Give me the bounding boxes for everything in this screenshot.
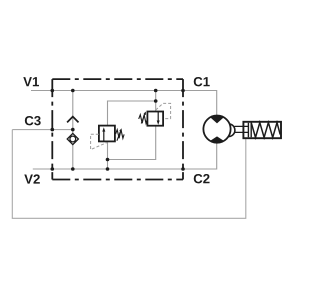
junction relief valve 1 top link xyxy=(154,99,158,103)
port label V2 xyxy=(24,174,40,183)
brake cylinder body xyxy=(243,122,281,138)
junction V1 line x check valve branch xyxy=(71,89,75,93)
brake piston rod xyxy=(235,126,249,132)
hydraulic motor circle xyxy=(203,116,230,143)
node C3 port at boundary xyxy=(51,128,55,132)
port label C3 xyxy=(25,116,41,125)
node V1 port at boundary xyxy=(51,89,55,93)
wire V2 to C2 to motor bottom xyxy=(33,142,217,169)
motor shaft circle xyxy=(222,124,235,137)
relief valve 2 spring xyxy=(139,115,148,124)
relief valve 2 adjust arrow xyxy=(141,112,145,123)
wire check valve branch xyxy=(72,91,74,170)
brake spring xyxy=(251,123,280,138)
check valve diamond xyxy=(67,133,78,144)
motor top triangle xyxy=(210,116,223,124)
brake piston xyxy=(248,123,251,138)
wire V1 to C1 to motor top xyxy=(31,91,217,117)
junction V2 line x check valve branch xyxy=(71,167,75,171)
relief valve 2 body xyxy=(147,112,163,126)
port label C1 xyxy=(194,77,210,86)
relief valve 2 pilot line xyxy=(156,103,171,118)
port label C2 xyxy=(194,174,210,183)
node C2 port at boundary xyxy=(181,167,185,171)
junction relief valve bottom link xyxy=(106,158,110,162)
wire C3 loop to brake cylinder xyxy=(12,130,246,219)
wire relief valve 1 top link xyxy=(108,101,156,126)
check valve ball xyxy=(70,136,76,142)
junction V2 line x relief valve 1 branch xyxy=(106,167,110,171)
check valve seat chevron xyxy=(67,117,78,123)
relief valve 1 body xyxy=(99,126,115,142)
relief valve 2 flow arrow xyxy=(157,112,159,121)
relief valve 1 flow arrow xyxy=(103,131,105,141)
valve block dashed boundary xyxy=(52,79,183,179)
node C1 port at boundary xyxy=(181,89,185,93)
wire relief valve 2 bottom link xyxy=(108,126,156,160)
relief valve 1 spring xyxy=(116,130,125,139)
relief valve 1 pilot line xyxy=(91,134,108,149)
node V2 port at boundary xyxy=(51,167,55,171)
relief valve 1 adjust arrow xyxy=(117,130,121,141)
port label V1 xyxy=(23,77,39,86)
wire relief valve 2 top xyxy=(155,91,157,112)
motor bottom triangle xyxy=(210,136,223,142)
wire C3 port line xyxy=(12,129,73,131)
wire relief valve 1 bottom xyxy=(107,141,109,169)
junction C3 line x check valve branch xyxy=(71,128,75,132)
junction V1 line x relief valve 2 branch xyxy=(154,89,158,93)
